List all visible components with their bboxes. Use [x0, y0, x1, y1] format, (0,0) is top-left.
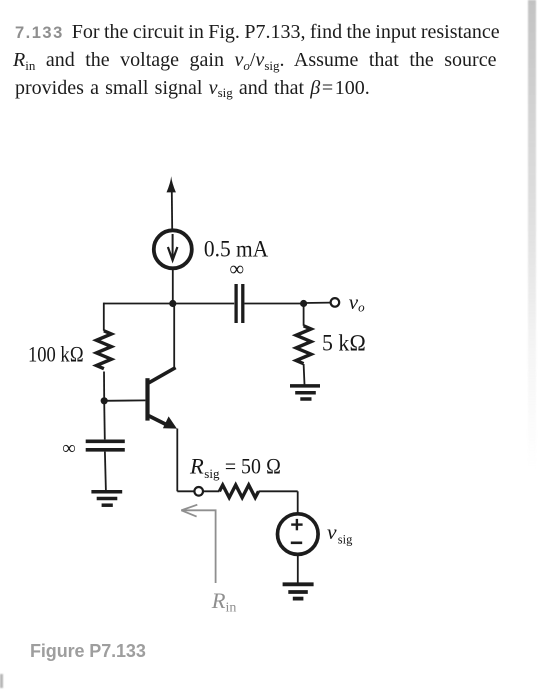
resistor RC 5 kOhm	[296, 304, 311, 385]
terminal vo	[331, 298, 340, 307]
svg-text:∞: ∞	[229, 258, 244, 280]
wire top rail left	[104, 303, 234, 305]
label vsig	[327, 520, 353, 547]
wire top rail to RB	[103, 303, 105, 331]
node B junction	[101, 397, 108, 404]
label Rsig = 50 Ohm	[189, 453, 281, 480]
capacitor C1	[236, 284, 243, 323]
wire node B down to C2	[103, 401, 106, 440]
wire emitter down	[176, 429, 178, 492]
page edge artifact	[528, 0, 536, 470]
resistor RB 100 kOhm	[96, 331, 111, 401]
ground G2	[91, 492, 122, 505]
problem statement paragraph	[15, 20, 500, 45]
source vsig	[278, 514, 319, 555]
current source I 0.5 mA	[154, 230, 192, 268]
wire terminal to Rsig	[203, 490, 219, 492]
svg-text:5 kΩ: 5 kΩ	[322, 331, 366, 356]
terminal input	[194, 487, 203, 496]
wire base	[104, 399, 145, 401]
transistor Q1	[145, 368, 177, 429]
svg-text:Rin: Rin	[211, 588, 237, 616]
wire Rsig to vsig	[259, 491, 298, 513]
VCC supply arrow	[167, 176, 176, 229]
ground G3	[283, 584, 314, 598]
svg-text:vo: vo	[349, 290, 365, 315]
figure caption	[30, 641, 146, 662]
wire collector to node C	[173, 304, 175, 369]
Rin arrow	[181, 505, 215, 583]
svg-text:100 kΩ: 100 kΩ	[28, 342, 84, 367]
wire C1 to node vo	[245, 303, 304, 305]
wire current source to node C	[172, 268, 174, 304]
svg-text:v: v	[327, 520, 337, 544]
svg-text:∞: ∞	[62, 438, 76, 459]
node C junction	[169, 300, 176, 307]
wire C2 to ground G2	[105, 452, 106, 491]
svg-text:sig: sig	[204, 466, 220, 481]
node vo junction	[300, 300, 307, 307]
wire node vo to terminal	[304, 302, 331, 304]
svg-text:R: R	[189, 453, 204, 478]
capacitor C2	[86, 441, 125, 450]
wire vsig to ground G3	[297, 554, 299, 582]
ground G1	[290, 386, 320, 399]
svg-text:sig: sig	[338, 532, 353, 546]
wire emitter to input terminal	[177, 490, 194, 492]
resistor Rsig 50 Ohm	[219, 485, 258, 498]
svg-text:= 50 Ω: = 50 Ω	[225, 453, 281, 478]
